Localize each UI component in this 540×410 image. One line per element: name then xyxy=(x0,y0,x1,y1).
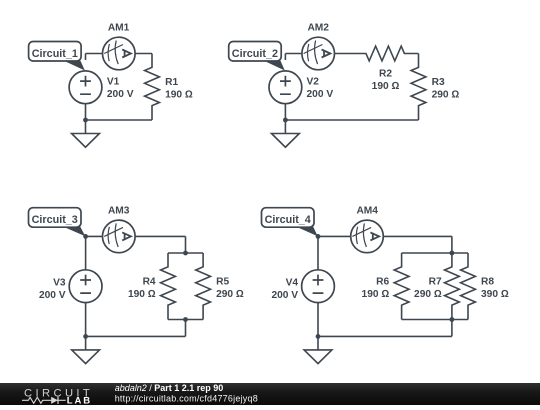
node parallel top (R4-R5) xyxy=(183,251,188,256)
svg-text:290 Ω: 290 Ω xyxy=(216,289,244,300)
svg-text:190 Ω: 190 Ω xyxy=(165,90,193,101)
node parallel bottom (R6-R7-R8) xyxy=(450,317,455,322)
wire circuit1 bottom rail xyxy=(86,119,153,121)
wire circuit2 bottom rail xyxy=(285,119,418,121)
svg-text:290 Ω: 290 Ω xyxy=(432,90,460,101)
wire circuit4 bottom rail xyxy=(318,320,452,337)
wire circuit4 parallel bars xyxy=(402,253,468,320)
ammeter AM4 xyxy=(351,220,384,253)
voltage source V2 xyxy=(269,71,302,104)
svg-text:Circuit_2: Circuit_2 xyxy=(232,48,278,60)
svg-text:190 Ω: 190 Ω xyxy=(362,289,390,300)
node junction V4-ground xyxy=(316,334,321,339)
svg-text:V4: V4 xyxy=(286,277,299,288)
svg-text:AM1: AM1 xyxy=(108,22,130,33)
voltage source V1 xyxy=(69,71,102,104)
node label Circuit_1 xyxy=(29,42,85,71)
wire circuit4 left/top xyxy=(318,236,452,336)
svg-text:190 Ω: 190 Ω xyxy=(128,289,156,300)
svg-text:Circuit_1: Circuit_1 xyxy=(32,48,78,60)
ammeter AM1 xyxy=(103,37,136,70)
wire circuit3 bottom rail xyxy=(86,320,186,337)
svg-text:R2: R2 xyxy=(379,69,392,80)
resistor R2 xyxy=(334,46,419,61)
svg-text:Circuit_3: Circuit_3 xyxy=(32,214,78,226)
ammeter AM3 xyxy=(103,220,136,253)
svg-text:AM4: AM4 xyxy=(356,205,378,216)
node junction V3-ground xyxy=(83,334,88,339)
node label Circuit_4 xyxy=(262,208,318,237)
svg-text:LAB: LAB xyxy=(67,395,92,405)
svg-text:200 V: 200 V xyxy=(39,290,66,301)
voltage source V3 xyxy=(69,270,102,303)
resistor R3 xyxy=(411,54,426,121)
ground xyxy=(72,336,100,363)
voltage source V4 xyxy=(302,270,335,303)
svg-text:290 Ω: 290 Ω xyxy=(414,289,442,300)
svg-text:V2: V2 xyxy=(307,77,320,88)
ground xyxy=(272,120,300,147)
ammeter AM2 xyxy=(302,37,335,70)
svg-text:R7: R7 xyxy=(429,277,442,288)
resistor R7 xyxy=(445,253,460,320)
svg-text:V3: V3 xyxy=(53,277,66,288)
wire circuit2 left/top xyxy=(285,54,334,121)
node parallel bottom (R4-R5) xyxy=(183,317,188,322)
svg-text:200 V: 200 V xyxy=(307,89,334,100)
svg-text:190 Ω: 190 Ω xyxy=(372,81,400,92)
svg-text:390 Ω: 390 Ω xyxy=(481,289,509,300)
svg-text:AM2: AM2 xyxy=(307,22,329,33)
wire circuit3 left/top xyxy=(86,236,186,336)
wire circuit1 left/top xyxy=(86,54,153,121)
node junction V2-ground xyxy=(283,118,288,123)
svg-text:R3: R3 xyxy=(432,77,445,88)
node junction V1-ground xyxy=(83,118,88,123)
svg-text:http://circuitlab.com/cfd4776j: http://circuitlab.com/cfd4776jejyq8 xyxy=(115,393,258,403)
node label Circuit_3 xyxy=(29,208,86,237)
svg-text:R4: R4 xyxy=(143,277,156,288)
svg-text:R5: R5 xyxy=(216,277,229,288)
node parallel top (R6-R7-R8) xyxy=(450,251,455,256)
svg-text:Circuit_4: Circuit_4 xyxy=(265,214,311,226)
ground xyxy=(304,336,332,363)
wire circuit3 parallel bars xyxy=(168,253,203,320)
resistor R4 xyxy=(161,253,176,320)
resistor R5 xyxy=(196,253,211,320)
node junction callout3 xyxy=(83,234,88,239)
node label Circuit_2 xyxy=(229,42,285,71)
ground xyxy=(72,120,100,147)
logo CIRCUIT LAB xyxy=(22,387,93,406)
svg-text:200 V: 200 V xyxy=(271,290,298,301)
svg-text:abdaln2 / Part 1 2.1 rep 90: abdaln2 / Part 1 2.1 rep 90 xyxy=(115,383,224,393)
node junction callout4 xyxy=(316,234,321,239)
svg-text:V1: V1 xyxy=(107,77,120,88)
resistor R8 xyxy=(461,253,476,320)
svg-text:AM3: AM3 xyxy=(108,205,130,216)
resistor R6 xyxy=(394,253,409,320)
svg-text:R6: R6 xyxy=(376,277,389,288)
resistor R1 xyxy=(145,54,160,121)
svg-text:R8: R8 xyxy=(481,277,494,288)
svg-text:200 V: 200 V xyxy=(107,89,134,100)
svg-text:R1: R1 xyxy=(165,77,178,88)
